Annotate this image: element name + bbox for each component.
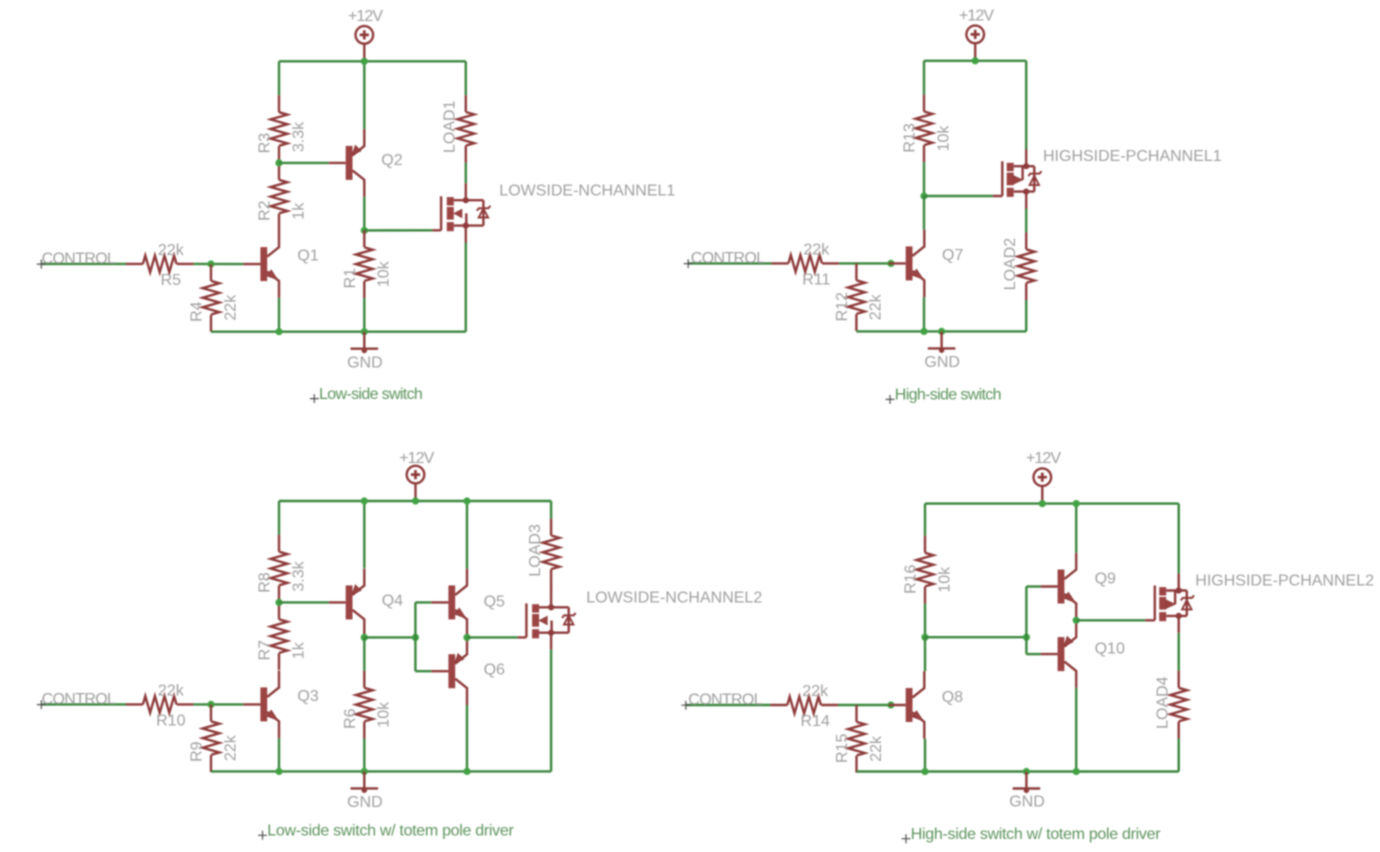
svg-text:22k: 22k: [803, 241, 830, 258]
junction Q3 base node (R10/R9/Q3): [207, 701, 214, 708]
wire link to Q5 base: [415, 601, 431, 603]
junction Q4 emitter at rail: [361, 497, 368, 504]
wire left rail top (R3 to +12V rail): [278, 61, 280, 95]
wire MOSFET source to +12V rail: [1025, 61, 1027, 150]
junction GND symbol node (circuit 1): [361, 328, 368, 335]
svg-text:3.3k: 3.3k: [290, 121, 307, 152]
junction Q6 collector at GND rail: [463, 768, 470, 775]
transistor Q1 (NPN): [243, 230, 279, 298]
svg-text:R14: R14: [801, 713, 830, 730]
resistor R8 3.3k: [271, 535, 288, 603]
svg-text:HIGHSIDE-PCHANNEL2: HIGHSIDE-PCHANNEL2: [1195, 573, 1374, 590]
wire LOAD1 to +12V rail: [465, 61, 467, 95]
svg-text:Q10: Q10: [1095, 641, 1125, 658]
supply +12V (circuit 2): [966, 26, 984, 61]
transistor Q3 (NPN): [243, 671, 279, 739]
resistor LOAD1: [457, 95, 474, 163]
junction GND symbol node (circuit 4): [1023, 768, 1030, 775]
wire MOSFET source to GND rail: [550, 650, 552, 772]
wire GND rail (bottom, circuit 1): [211, 331, 466, 333]
wire MOSFET source to GND rail: [465, 243, 467, 332]
svg-text:R10: R10: [156, 712, 185, 729]
wire MOSFET drain to LOAD4: [1177, 633, 1179, 671]
svg-text:CONTROL: CONTROL: [42, 250, 116, 267]
wire link to Q9 base: [1026, 585, 1040, 587]
transistor Q7 (NPN): [889, 230, 925, 298]
wire R6 to GND rail: [363, 739, 365, 772]
transistor Q8 (NPN): [889, 671, 925, 739]
svg-text:22k: 22k: [868, 293, 885, 320]
junction +12V rail (circuit 3): [412, 497, 419, 504]
wire GND rail (bottom, circuit 4): [857, 770, 1179, 772]
svg-text:CONTROL: CONTROL: [42, 691, 116, 708]
svg-text:R2: R2: [257, 200, 274, 221]
junction Q10 collector at GND rail: [1073, 768, 1080, 775]
net label origin cross CONTROL (circuit 4): [681, 701, 690, 710]
mosfet HIGHSIDE-PCHANNEL1 (P-channel with body diode): [993, 149, 1042, 208]
wire CONTROL to R11: [688, 262, 772, 264]
ground GND (circuit 3): [351, 771, 379, 793]
resistor LOAD4: [1170, 671, 1187, 739]
junction Q3 emitter at GND rail: [275, 768, 282, 775]
wire link node horizontal: [925, 636, 1026, 638]
svg-text:LOAD3: LOAD3: [527, 524, 544, 577]
svg-text:R3: R3: [257, 133, 274, 154]
net label origin cross CONTROL (circuit 1): [37, 260, 46, 269]
svg-text:Q7: Q7: [942, 247, 963, 264]
resistor R2 1k: [271, 163, 288, 231]
svg-text:High-side switch w/ totem pole: High-side switch w/ totem pole driver: [911, 826, 1161, 843]
wire left rail to R16: [924, 504, 926, 536]
junction base-link node: [412, 634, 419, 641]
wire R1 to GND rail: [363, 298, 365, 332]
svg-text:Q4: Q4: [382, 592, 403, 609]
resistor R12 22k: [848, 263, 865, 331]
wire Q10 collector to GND rail: [1075, 688, 1077, 772]
wire LOAD2 to GND rail: [1025, 300, 1027, 331]
wire R13 to gate node: [923, 162, 925, 196]
wire Q7 emitter to GND rail: [923, 297, 925, 331]
wire R8-R7 node to Q4 base: [279, 601, 329, 603]
svg-text:R1: R1: [342, 268, 359, 289]
junction +12V rail (circuit 1): [361, 58, 368, 65]
svg-text:R7: R7: [257, 640, 274, 661]
svg-text:Low-side switch w/ totem pole: Low-side switch w/ totem pole driver: [267, 822, 514, 839]
svg-text:CONTROL: CONTROL: [691, 250, 765, 267]
junction +12V rail (circuit 2): [972, 57, 979, 64]
svg-text:R13: R13: [902, 123, 919, 152]
resistor R3 3.3k: [271, 95, 288, 163]
resistor R7 1k: [271, 602, 288, 670]
junction Q7 base node: [887, 260, 894, 267]
svg-text:R8: R8: [257, 572, 274, 593]
svg-text:+12V: +12V: [399, 450, 434, 467]
wire CONTROL to R14: [686, 704, 771, 706]
resistor R1 10k: [356, 230, 373, 298]
wire output node to MOSFET gate (circuit 4): [1076, 619, 1145, 621]
resistor R15 22k: [848, 705, 865, 773]
svg-text:GND: GND: [924, 354, 960, 371]
svg-text:Q1: Q1: [297, 248, 318, 265]
svg-text:LOWSIDE-NCHANNEL1: LOWSIDE-NCHANNEL1: [499, 182, 675, 199]
wire base link vertical (circuit 4): [1025, 587, 1027, 655]
resistor R9 22k: [203, 704, 220, 772]
circuit 1: low-side switch: [37, 8, 676, 403]
svg-text:22k: 22k: [868, 735, 885, 762]
svg-text:LOAD2: LOAD2: [1002, 238, 1019, 291]
wire R14 to Q8 base: [838, 704, 889, 706]
wire Q4 collector to output node: [363, 636, 365, 637]
junction GND symbol node (circuit 3): [361, 768, 368, 775]
svg-text:R6: R6: [342, 708, 359, 729]
svg-text:3.3k: 3.3k: [290, 560, 307, 591]
transistor Q2 (PNP): [329, 129, 365, 197]
svg-text:Low-side switch: Low-side switch: [319, 386, 422, 403]
mosfet LOWSIDE-NCHANNEL2 (N-channel with body diode): [518, 590, 576, 649]
resistor LOAD3: [543, 519, 560, 587]
wire gate node to MOSFET gate: [924, 195, 993, 197]
junction Q9 collector at rail: [1073, 500, 1080, 507]
wire link to Q10 base: [1026, 653, 1040, 655]
resistor R13 10k: [916, 95, 933, 163]
resistor LOAD2: [1018, 232, 1035, 300]
ground GND (circuit 4): [1013, 772, 1041, 794]
junction Q5 collector at rail: [463, 497, 470, 504]
wire link to Q6 base: [415, 670, 431, 672]
wire LOAD1 to MOSFET drain: [465, 163, 467, 184]
svg-text:CONTROL: CONTROL: [688, 692, 762, 709]
junction Q7 emitter at GND rail: [920, 328, 927, 335]
ground GND (circuit 2): [928, 331, 956, 353]
wire Q7 collector to gate node: [923, 196, 925, 230]
svg-text:1k: 1k: [290, 641, 307, 659]
wire R11 to Q7 base: [839, 262, 889, 264]
svg-text:22k: 22k: [802, 683, 829, 700]
svg-text:+12V: +12V: [959, 8, 994, 25]
wire Q1 emitter to GND rail: [278, 298, 280, 332]
svg-text:10k: 10k: [935, 125, 952, 152]
wire gate node to MOSFET gate: [364, 229, 432, 231]
wire Q9 collector to +12V rail: [1075, 504, 1077, 553]
wire Q2 emitter to +12V rail: [363, 61, 365, 129]
svg-text:Q8: Q8: [942, 689, 963, 706]
wire left rail to R13: [923, 61, 925, 95]
wire MOSFET drain to LOAD2: [1025, 209, 1027, 233]
svg-text:Q3: Q3: [297, 688, 318, 705]
wire Q2 collector to gate node: [363, 197, 365, 231]
svg-text:GND: GND: [347, 794, 383, 811]
svg-text:R16: R16: [903, 564, 920, 593]
mosfet LOWSIDE-NCHANNEL1 (N-channel with body diode): [432, 183, 490, 242]
wire R3-R2 node to Q2 base: [279, 162, 329, 164]
circuit 3: low-side switch with totem pole driver: [37, 450, 763, 840]
svg-text:LOAD1: LOAD1: [442, 100, 459, 153]
wire LOAD4 to GND rail: [1177, 739, 1179, 772]
wire left rail to R8: [278, 501, 280, 535]
svg-text:R9: R9: [189, 741, 206, 762]
caption cross Low-side switch w/ totem pole driver: [258, 831, 267, 840]
svg-text:Q5: Q5: [484, 594, 505, 611]
resistor R5 22k: [126, 256, 194, 273]
svg-text:LOWSIDE-NCHANNEL2: LOWSIDE-NCHANNEL2: [586, 590, 762, 607]
circuit 2: high-side switch: [684, 8, 1222, 404]
junction Q1 emitter at GND rail: [275, 328, 282, 335]
svg-text:R5: R5: [161, 272, 182, 289]
wire GND rail (bottom, circuit 2): [856, 330, 1026, 332]
transistor Q6 (PNP, emitter up): [431, 637, 467, 705]
resistor R14 22k: [770, 697, 838, 714]
circuit 4: high-side switch with totem pole driver: [681, 450, 1374, 843]
resistor R10 22k: [126, 696, 194, 713]
caption cross Low-side switch: [310, 394, 319, 403]
svg-text:R15: R15: [834, 734, 851, 763]
svg-text:R11: R11: [802, 271, 830, 288]
supply +12V (circuit 1): [356, 26, 374, 61]
svg-text:+12V: +12V: [1026, 450, 1061, 467]
caption cross High-side switch w/ totem pole driver: [902, 834, 911, 843]
svg-text:GND: GND: [347, 354, 383, 371]
supply +12V (circuit 3): [407, 466, 425, 501]
wire output node to MOSFET gate: [467, 636, 518, 638]
wire +12V rail (top, circuit 2): [924, 60, 1026, 62]
mosfet HIGHSIDE-PCHANNEL2 (P-channel with body diode): [1145, 574, 1194, 633]
svg-text:GND: GND: [1009, 794, 1045, 811]
svg-text:Q9: Q9: [1095, 571, 1116, 588]
svg-text:10k: 10k: [376, 260, 393, 287]
wire Q5 collector to +12V rail: [466, 501, 468, 569]
wire R5 to Q1 base node: [194, 263, 244, 266]
wire R16 to link node: [924, 604, 926, 638]
wire output node to R6: [363, 637, 365, 671]
svg-text:High-side switch: High-side switch: [895, 387, 1001, 404]
junction Q4 collector output node: [361, 634, 368, 641]
wire Q6 collector to GND rail: [466, 705, 468, 771]
svg-text:HIGHSIDE-PCHANNEL1: HIGHSIDE-PCHANNEL1: [1043, 148, 1222, 165]
svg-text:10k: 10k: [376, 701, 393, 728]
svg-text:22k: 22k: [222, 734, 239, 761]
svg-text:+12V: +12V: [348, 8, 383, 25]
wire LOAD3 lead to MOSFET drain pin: [550, 586, 552, 592]
wire +12V rail (top, circuit 1): [279, 60, 466, 62]
svg-text:22k: 22k: [222, 294, 239, 321]
junction +12V rail (circuit 4): [1039, 500, 1046, 507]
junction node R3/R2/Q2-base: [275, 159, 282, 166]
resistor R4 22k: [203, 264, 220, 332]
svg-text:1k: 1k: [290, 202, 307, 220]
wire output node to base-link node: [364, 636, 415, 638]
svg-text:10k: 10k: [936, 566, 953, 593]
wire LOAD3 to +12V rail: [550, 501, 552, 519]
wire R10 to Q3 base node: [194, 703, 244, 705]
junction Q5/Q6 emitters output node: [463, 634, 470, 641]
svg-text:Q2: Q2: [381, 152, 402, 169]
junction GND symbol node (circuit 2): [938, 328, 945, 335]
resistor R6 10k: [356, 671, 373, 739]
ground GND (circuit 1): [351, 332, 379, 354]
junction R16/Q8 collector node: [921, 634, 928, 641]
caption cross High-side switch: [886, 395, 895, 404]
wire MOSFET source to +12V rail: [1177, 504, 1179, 574]
net label origin cross CONTROL (circuit 3): [37, 700, 46, 709]
svg-text:R4: R4: [189, 301, 206, 322]
junction gate node (R13/Q7/M-gate): [920, 192, 927, 199]
wire +12V rail (top, circuit 4): [925, 502, 1179, 504]
net label origin cross CONTROL (circuit 2): [684, 259, 693, 268]
wire GND rail (bottom, circuit 3): [211, 770, 551, 772]
wire CONTROL to R10: [41, 703, 126, 705]
transistor Q10 (PNP, emitter up): [1041, 620, 1077, 688]
wire Q8 collector to link node: [924, 637, 926, 671]
wire base link vertical: [414, 602, 416, 671]
supply +12V (circuit 4): [1034, 468, 1052, 503]
svg-text:R12: R12: [834, 292, 851, 321]
junction node R8/R7/Q4-base: [275, 599, 282, 606]
svg-text:Q6: Q6: [484, 661, 505, 678]
junction Q8 emitter at GND rail: [921, 768, 928, 775]
transistor Q4 (PNP): [329, 569, 365, 637]
resistor R11 22k: [772, 255, 840, 272]
svg-text:22k: 22k: [158, 682, 185, 699]
wire Q3 emitter to GND rail: [278, 738, 280, 771]
wire Q4 emitter to +12V rail: [363, 501, 365, 568]
junction base-link node (circuit 4): [1023, 634, 1030, 641]
wire CONTROL to R5: [41, 263, 126, 265]
resistor R16 10k: [917, 536, 934, 604]
wire Q8 emitter to GND rail: [924, 739, 926, 772]
transistor Q9 (NPN): [1041, 553, 1077, 621]
wire +12V rail (top, circuit 3): [279, 500, 551, 502]
transistor Q5 (NPN): [431, 569, 467, 637]
junction Q1 base node (R5/R4/Q1): [207, 260, 214, 267]
junction Q8 base node: [887, 701, 894, 708]
junction Q9/Q10 emitters output node: [1073, 617, 1080, 624]
svg-text:LOAD4: LOAD4: [1155, 676, 1172, 729]
junction gate node (Q2/R1/M-gate): [361, 227, 368, 234]
svg-text:22k: 22k: [158, 242, 185, 259]
